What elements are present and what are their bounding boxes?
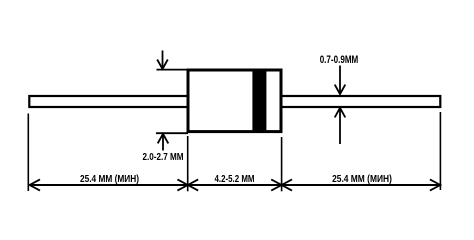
svg-text:4.2-5.2 ММ: 4.2-5.2 ММ [215, 174, 255, 185]
right lead [280, 96, 440, 107]
diode body D1 [188, 70, 281, 132]
arrowhead right end [430, 179, 440, 190]
arrow up to lead bottom [335, 108, 346, 144]
extension line below body right edge [281, 137, 283, 191]
svg-text:25.4 ММ (МИН): 25.4 ММ (МИН) [80, 174, 139, 185]
svg-text:25.4 ММ (МИН): 25.4 ММ (МИН) [332, 174, 392, 185]
extension line bottom of body [156, 132, 188, 134]
double arrowhead at body left [177, 179, 198, 190]
bottom dimension line [29, 184, 440, 186]
arrow up to body bottom [158, 134, 169, 151]
extension line below body left edge [187, 136, 189, 191]
double arrowhead at body right [271, 179, 292, 190]
arrow down to body top [157, 51, 168, 70]
extension line top of body [157, 69, 189, 71]
svg-text:0.7-0.9ММ: 0.7-0.9ММ [320, 54, 359, 66]
left lead [29, 96, 189, 107]
arrowhead left end [30, 179, 40, 190]
extension line below left lead end [27, 114, 29, 192]
arrow down to lead top [335, 66, 346, 95]
svg-text:2.0-2.7 ММ: 2.0-2.7 ММ [143, 152, 184, 163]
cathode band [252, 70, 266, 133]
extension line below right lead end [439, 112, 441, 190]
